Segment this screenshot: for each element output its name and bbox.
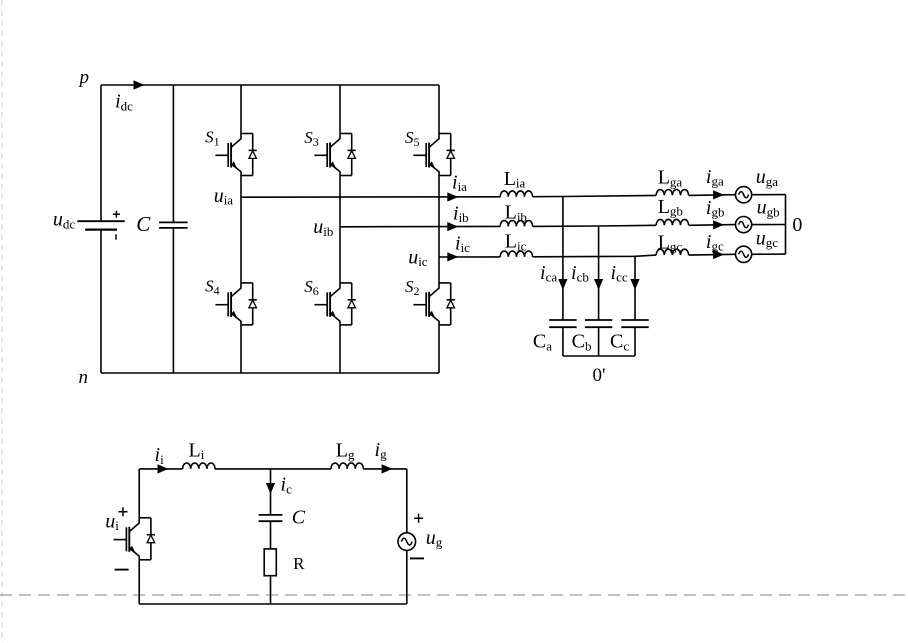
svg-text:p: p — [78, 67, 90, 88]
svg-text:n: n — [79, 367, 89, 388]
svg-text:C: C — [292, 507, 306, 529]
svg-text:0': 0' — [593, 365, 606, 386]
svg-text:C: C — [136, 212, 151, 236]
svg-text:R: R — [293, 554, 305, 573]
svg-text:0: 0 — [792, 214, 802, 236]
